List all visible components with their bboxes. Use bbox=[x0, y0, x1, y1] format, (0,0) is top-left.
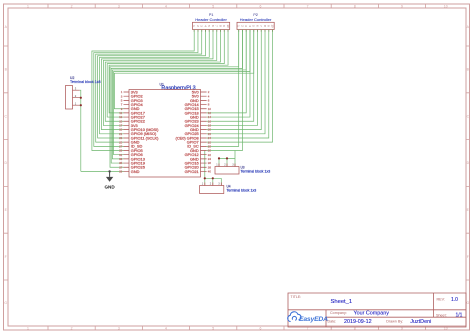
terminal block U3 bbox=[215, 164, 270, 175]
svg-text:GND: GND bbox=[131, 169, 140, 174]
svg-text:Terminal block 1x8: Terminal block 1x8 bbox=[70, 80, 101, 84]
wire P2 pin 2 to right row 15 bbox=[207, 30, 243, 151]
svg-text:Header Controller: Header Controller bbox=[240, 17, 272, 22]
wire P1 pin 8 to left row 8 bbox=[105, 30, 220, 122]
wire P2 pin 7 to right row 10 bbox=[207, 30, 262, 130]
wire P2 pin 8 to right row 11 bbox=[207, 30, 265, 134]
junction U2 pin 2 bbox=[80, 97, 82, 99]
svg-text:9: 9 bbox=[401, 4, 403, 8]
wire U2 pins common net down to GND rail bbox=[80, 90, 81, 171]
junction U4 pin 2 bbox=[212, 177, 214, 179]
svg-text:6: 6 bbox=[259, 326, 261, 330]
svg-text:F: F bbox=[5, 255, 7, 259]
svg-text:GPIO21: GPIO21 bbox=[185, 169, 199, 174]
wire P1 pin 10 to left row 6 bbox=[109, 30, 228, 113]
svg-text:40: 40 bbox=[208, 170, 212, 174]
wire P1 pin 4 to left row 12 bbox=[98, 30, 206, 138]
wire P1 pin 7 to left row 9 bbox=[103, 30, 216, 126]
svg-text:5: 5 bbox=[212, 326, 214, 330]
op IC U1 RaspberryPi 3 bbox=[119, 83, 211, 177]
wire P1 pin 3 to left row 13 bbox=[96, 30, 202, 143]
svg-text:Date:: Date: bbox=[328, 319, 337, 323]
svg-text:GND: GND bbox=[104, 185, 115, 190]
wire P2 pin 3 to right row 6 bbox=[207, 30, 247, 113]
wire P1 pin 1 to left row 15 bbox=[92, 30, 194, 151]
svg-text:Your Company: Your Company bbox=[354, 310, 390, 316]
wire P1 pin 2 to left row 14 bbox=[94, 30, 198, 147]
svg-text:Terminal block 1x3: Terminal block 1x3 bbox=[241, 170, 271, 174]
junction U3 pin 1 bbox=[218, 157, 220, 159]
svg-text:Sheet_1: Sheet_1 bbox=[331, 299, 353, 305]
wire P2 pin 5 staircase to left side bbox=[114, 30, 253, 109]
svg-text:5: 5 bbox=[212, 4, 214, 8]
svg-text:4: 4 bbox=[165, 4, 167, 8]
header pin stubs bbox=[194, 30, 272, 32]
wire P2 pin 1 staircase to left side bbox=[110, 30, 239, 168]
header connector P1 bbox=[192, 13, 230, 29]
junction U3 pin 2 bbox=[226, 157, 228, 159]
terminal block U2 bbox=[66, 76, 101, 109]
wire P2 pin 10 to right row 13 bbox=[207, 30, 273, 143]
svg-text:10: 10 bbox=[444, 4, 448, 8]
svg-text:1: 1 bbox=[27, 326, 29, 330]
svg-text:Header Controller: Header Controller bbox=[195, 17, 227, 22]
svg-text:1/1: 1/1 bbox=[456, 313, 463, 319]
svg-text:8: 8 bbox=[354, 4, 356, 8]
wire P2 pin 9 to right row 12 bbox=[207, 30, 269, 138]
junction U4 pin 1 bbox=[204, 177, 206, 179]
svg-text:G: G bbox=[4, 301, 7, 305]
wire P1 pin 9 to left row 7 bbox=[107, 30, 224, 118]
svg-text:Drawn By:: Drawn By: bbox=[386, 319, 403, 323]
wire GND rail to IC pin 39 bbox=[81, 170, 124, 172]
wire P2 pin 2 staircase to left side bbox=[111, 30, 242, 164]
svg-text:39: 39 bbox=[119, 170, 123, 174]
title block bbox=[288, 293, 466, 327]
wire P2 pin 5 to right row 8 bbox=[207, 30, 254, 122]
wire P2 pin 6 to right row 9 bbox=[207, 30, 258, 126]
svg-text:REV:: REV: bbox=[437, 298, 445, 302]
junction GND tap bbox=[108, 170, 110, 172]
junction U2 pin 1 bbox=[80, 104, 82, 106]
ground bbox=[104, 171, 115, 189]
svg-text:F: F bbox=[467, 255, 469, 259]
svg-text:2019-09-12: 2019-09-12 bbox=[344, 319, 372, 325]
header connector P2 bbox=[237, 13, 275, 29]
svg-text:G: G bbox=[466, 301, 469, 305]
wire P2 pin 3 staircase to left side bbox=[112, 30, 246, 159]
wire GND net down to U4 bbox=[205, 151, 222, 186]
wire P2 pin 1 to right row 14 bbox=[207, 30, 239, 147]
svg-text:3: 3 bbox=[118, 4, 120, 8]
svg-text:EasyEDA: EasyEDA bbox=[299, 316, 328, 323]
svg-text:2: 2 bbox=[71, 326, 73, 330]
svg-text:2: 2 bbox=[71, 4, 73, 8]
svg-text:1.0: 1.0 bbox=[451, 297, 458, 303]
svg-text:Sheet:: Sheet: bbox=[436, 313, 447, 317]
wire GND row15 net down to U3 bbox=[219, 151, 235, 167]
svg-text:U2: U2 bbox=[70, 76, 74, 80]
svg-text:6: 6 bbox=[259, 4, 261, 8]
wire P2 pin 4 to right row 7 bbox=[207, 30, 250, 118]
wire P1 pin 5 to left row 11 bbox=[100, 30, 210, 134]
svg-text:4: 4 bbox=[165, 326, 167, 330]
svg-text:1: 1 bbox=[27, 4, 29, 8]
svg-text:Terminal block 1x3: Terminal block 1x3 bbox=[227, 189, 257, 193]
svg-text:Company:: Company: bbox=[330, 311, 347, 315]
svg-text:3: 3 bbox=[118, 326, 120, 330]
svg-text:TITLE:: TITLE: bbox=[291, 295, 302, 299]
svg-text:7: 7 bbox=[307, 4, 309, 8]
terminal block U4 bbox=[200, 183, 257, 194]
svg-text:JuztDeni: JuztDeni bbox=[410, 319, 431, 325]
wire P2 pin 4 staircase to left side bbox=[114, 30, 250, 155]
wire P1 pin 6 to left row 10 bbox=[101, 30, 213, 130]
